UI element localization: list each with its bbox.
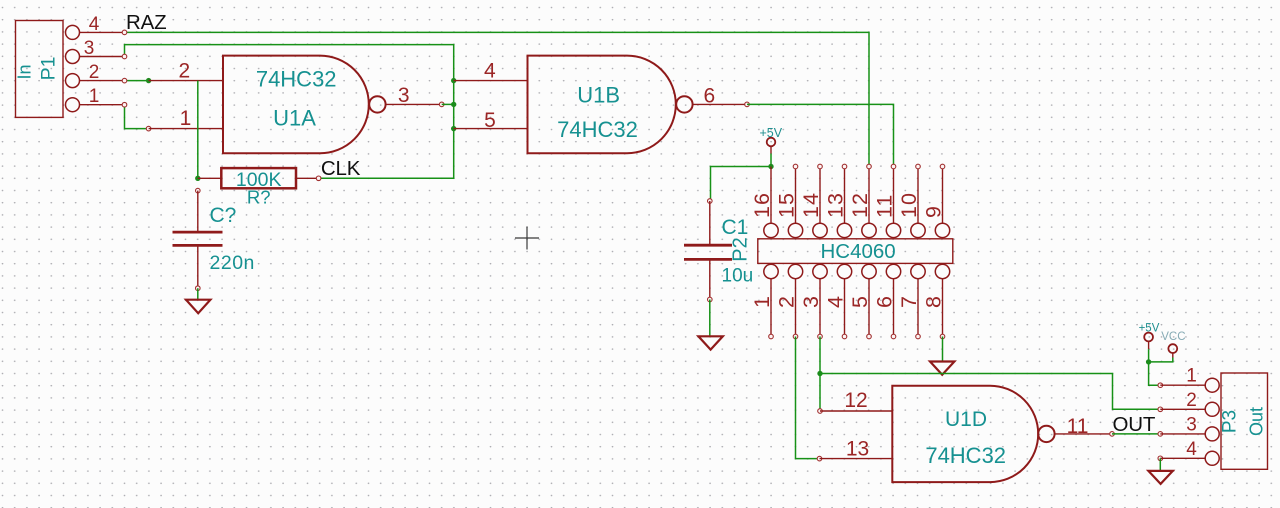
svg-text:In: In xyxy=(15,64,35,79)
svg-text:74HC32: 74HC32 xyxy=(557,117,638,142)
svg-text:1: 1 xyxy=(1186,366,1197,387)
svg-text:C1: C1 xyxy=(722,216,749,239)
wire U1B pin 4 xyxy=(454,80,528,82)
svg-text:C?: C? xyxy=(210,204,237,227)
P3 pin 4 xyxy=(1186,439,1219,465)
svg-text:1: 1 xyxy=(750,296,774,308)
junction on vertical at U1B pin4 xyxy=(451,78,456,83)
svg-text:4: 4 xyxy=(1186,439,1197,460)
capacitor C1 xyxy=(684,199,753,302)
wire HC4060 pin 8 to ground xyxy=(942,337,944,362)
P1 pin 1 xyxy=(66,86,125,112)
svg-text:11: 11 xyxy=(873,194,897,218)
svg-text:16: 16 xyxy=(750,192,774,218)
HC4060 top pin 9 xyxy=(922,164,950,237)
power +5V near P3 xyxy=(1139,323,1160,350)
wire +5V/VCC junction xyxy=(1146,349,1173,364)
P3 pin 3 xyxy=(1186,415,1219,441)
op-amp gate U1B xyxy=(528,56,693,154)
P3 pin 2 xyxy=(1186,390,1219,416)
svg-text:HC4060: HC4060 xyxy=(820,240,895,263)
connector P1 body xyxy=(15,21,64,118)
junction on vertical at U1B pin5 xyxy=(451,126,456,131)
resistor R? xyxy=(198,168,321,207)
wire +5V node to C1 top xyxy=(711,167,772,202)
svg-text:15: 15 xyxy=(775,192,799,218)
svg-text:RAZ: RAZ xyxy=(126,11,166,34)
HC4060 top pin 10 xyxy=(897,164,925,237)
svg-text:220n: 220n xyxy=(210,252,255,274)
wire HC4060 pin 3 to P3 pin 2 xyxy=(820,374,1160,410)
wire RAZ net xyxy=(122,30,869,166)
svg-text:2: 2 xyxy=(775,296,799,308)
P1 pin 2 xyxy=(66,62,125,88)
svg-text:R?: R? xyxy=(247,187,271,208)
HC4060 bottom pin 3 xyxy=(799,264,827,339)
svg-text:5: 5 xyxy=(484,109,496,132)
svg-text:3: 3 xyxy=(799,296,823,308)
svg-text:14: 14 xyxy=(799,192,823,218)
svg-text:Out: Out xyxy=(1247,407,1267,436)
svg-text:9: 9 xyxy=(922,205,946,218)
svg-text:3: 3 xyxy=(398,84,410,107)
connector P3 body xyxy=(1220,373,1268,469)
HC4060 bottom pin 8 xyxy=(922,264,950,339)
HC4060 top pin 16 xyxy=(750,167,778,238)
P1 pin 4 xyxy=(66,14,125,39)
HC4060 bottom pin 6 xyxy=(873,264,901,339)
svg-text:U1B: U1B xyxy=(577,83,620,108)
HC4060 top pin 13 xyxy=(824,164,852,237)
svg-text:12: 12 xyxy=(848,192,872,218)
svg-text:VCC: VCC xyxy=(1161,331,1185,343)
sheet center cross marker xyxy=(515,227,539,250)
op-amp gate U1D xyxy=(892,386,1054,482)
wire HC4060 pin 2 to U1D pin 13 xyxy=(796,337,893,461)
svg-text:3: 3 xyxy=(84,38,95,59)
wire P1.1 to U1A pin1 xyxy=(122,102,223,131)
svg-text:6: 6 xyxy=(873,296,897,308)
wire U1A output xyxy=(386,102,454,107)
svg-text:74HC32: 74HC32 xyxy=(925,443,1006,468)
svg-text:U1D: U1D xyxy=(945,408,987,431)
svg-text:3: 3 xyxy=(1186,415,1197,436)
junction on vertical at U1A output xyxy=(451,102,456,107)
wire U1B output to HC4060 pin 11 xyxy=(693,102,894,166)
svg-text:U1A: U1A xyxy=(273,105,316,130)
svg-text:5: 5 xyxy=(848,296,872,308)
HC4060 bottom pin 1 xyxy=(750,264,778,339)
svg-text:+5V: +5V xyxy=(1139,323,1160,335)
wire P3 pin 3 stub xyxy=(1160,433,1205,435)
ground under C? xyxy=(186,300,210,314)
svg-text:12: 12 xyxy=(844,389,867,412)
P3 pin 1 xyxy=(1186,366,1219,393)
power VCC near P3 xyxy=(1161,331,1185,358)
svg-text:2: 2 xyxy=(89,62,100,83)
svg-text:10: 10 xyxy=(897,192,921,218)
HC4060 bottom pin 2 xyxy=(775,264,803,339)
IC P2 HC4060 body xyxy=(730,237,953,263)
P1 pin 3 xyxy=(66,38,125,64)
HC4060 bottom pin 4 xyxy=(824,264,852,339)
HC4060 top pin 14 xyxy=(799,164,827,237)
wire +5V to pin16 junction xyxy=(768,154,773,170)
wire +5V node to P3 pin 1 xyxy=(1149,362,1206,388)
wire C? to ground xyxy=(197,288,199,300)
wire C1 to ground xyxy=(709,300,711,337)
svg-text:+5V: +5V xyxy=(760,126,783,140)
wire U1D output to P3 pin 3 xyxy=(1055,432,1163,437)
svg-text:OUT: OUT xyxy=(1113,413,1156,436)
wire vertical to resistor node xyxy=(195,81,200,193)
power +5V above HC4060 xyxy=(760,126,783,154)
HC4060 bottom pin 5 xyxy=(848,264,876,339)
ground under C1 xyxy=(698,336,722,349)
wire HC4060 pin 3 down xyxy=(817,337,892,414)
HC4060 top pin 15 xyxy=(775,164,803,237)
svg-text:4: 4 xyxy=(89,14,100,35)
svg-text:P3: P3 xyxy=(1220,410,1241,433)
HC4060 top pin 12 xyxy=(848,164,876,237)
svg-text:P1: P1 xyxy=(38,56,60,80)
svg-text:13: 13 xyxy=(846,438,869,461)
svg-text:74HC32: 74HC32 xyxy=(256,66,337,91)
svg-text:CLK: CLK xyxy=(321,157,361,180)
svg-text:8: 8 xyxy=(922,296,946,308)
label RAZ xyxy=(126,11,166,34)
wire P1.2 to U1A pin2 xyxy=(122,78,223,83)
svg-text:4: 4 xyxy=(824,296,848,308)
svg-text:7: 7 xyxy=(897,296,921,308)
svg-text:2: 2 xyxy=(1186,390,1197,411)
capacitor C? xyxy=(173,191,255,291)
wire to P3 pin 2 endpoint xyxy=(1158,407,1205,412)
wire P1.3 to CLK vertical net xyxy=(122,45,454,179)
svg-text:13: 13 xyxy=(824,192,848,218)
ground under HC4060 pin 8 xyxy=(930,362,954,375)
ground under P3 pin 4 xyxy=(1148,471,1172,484)
wire U1B pin 5 xyxy=(454,128,528,130)
svg-text:P2: P2 xyxy=(730,237,752,261)
HC4060 top pin 11 xyxy=(873,164,901,237)
svg-text:2: 2 xyxy=(179,60,191,83)
op-amp gate U1A xyxy=(223,56,386,154)
svg-text:1: 1 xyxy=(180,107,192,130)
svg-text:10u: 10u xyxy=(722,266,754,287)
svg-text:4: 4 xyxy=(484,60,496,83)
svg-text:1: 1 xyxy=(89,86,100,107)
wire P3 pin 4 stub xyxy=(1158,456,1205,471)
HC4060 bottom pin 7 xyxy=(897,264,925,339)
